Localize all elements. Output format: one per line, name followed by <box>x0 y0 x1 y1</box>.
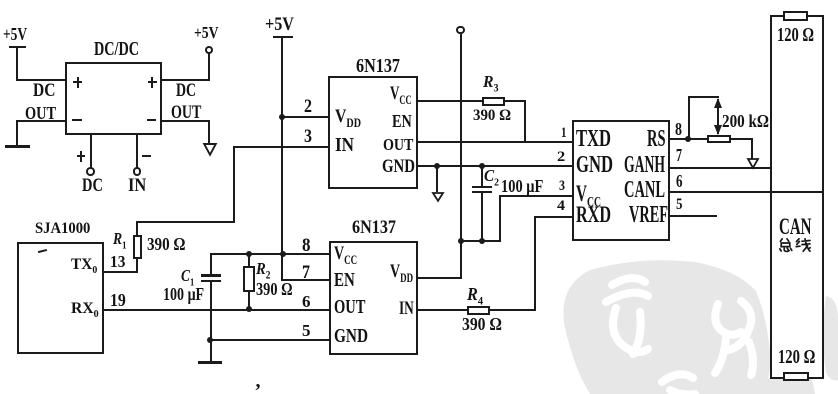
wire: to DC/DC left + pin <box>16 79 65 81</box>
node label DC (left) <box>33 82 60 101</box>
value 100 uF (C2) <box>501 177 554 195</box>
wire: horizontal y=221.5 to R1 <box>136 221 235 223</box>
terminator resistor 120 ohm (top) <box>783 11 809 21</box>
junction dot R2 bottom <box>246 306 252 312</box>
wire: R4 right <box>489 309 536 311</box>
wire: VREF stub <box>669 215 717 217</box>
capacitor C1 plate 1 <box>201 274 222 277</box>
terminal circle +5V (right of DC/DC) <box>205 46 214 55</box>
wire: down to iso-ground arrow <box>208 120 210 144</box>
pin label VDD (top 6N137) <box>335 108 366 127</box>
pin label EN (bottom 6N137) <box>334 271 362 291</box>
wire: top of wiper loop <box>688 96 719 98</box>
pin label RX0 <box>71 301 99 317</box>
junction dot R2 top <box>246 251 252 257</box>
ground bar (below C1) <box>198 361 222 364</box>
pin label TXD (transceiver) <box>576 128 626 152</box>
pin label OUT (top 6N137) <box>383 136 421 153</box>
wire: down to iso-ground arrow (200k) <box>751 138 753 159</box>
label R4 <box>467 285 485 303</box>
pin number 6 (bottom 6N137) <box>302 293 311 310</box>
wire: GANH to CAN bus <box>669 167 772 169</box>
wire: R3 down to TXD line <box>524 100 526 142</box>
wire: R2 top lead <box>248 254 250 267</box>
wire: IN (bottom 6N137) to R4 <box>418 309 468 311</box>
wire: pin 5 GND (bottom 6N137) <box>209 339 330 341</box>
wire: DC/DC right + pin <box>162 79 210 81</box>
pin label GANH (transceiver) <box>624 154 696 178</box>
resistor R4 body <box>467 306 490 316</box>
wire: CANL segment inside bus to right rail <box>770 191 823 193</box>
label SJA1000 <box>35 221 94 237</box>
label 6N137 (bottom) <box>352 219 403 238</box>
small smudge inside SJA1000 <box>38 248 47 252</box>
wire: IN vertical x=233.7 <box>233 146 235 223</box>
wire: +5V vertical rail x=461 <box>460 34 462 278</box>
capacitor C1 plate 2 <box>201 280 222 283</box>
junction dot +5V node <box>458 238 464 244</box>
optocoupler 6N137 (bottom) box <box>329 241 418 355</box>
wire: GND (top 6N137) to GND pin 2 <box>417 165 573 167</box>
label R3 <box>483 73 500 90</box>
value 200 kohm <box>722 112 778 130</box>
pin label RXD (transceiver) <box>576 204 626 227</box>
pin number 3 (transceiver) <box>559 179 566 194</box>
terminal circle DC (bottom) <box>86 167 95 176</box>
pin label GND (transceiver) <box>576 154 629 178</box>
wire: pin 8 / +5V node line <box>210 253 331 255</box>
pin label VDD (bottom 6N137) <box>390 263 421 282</box>
label - (bottom pin, drawn) <box>142 155 150 157</box>
ground bar (left) <box>5 145 30 148</box>
wire: +5V node line <box>461 240 501 242</box>
wire: TX0 pin 13 <box>101 271 138 273</box>
label +5V (right of DC/DC) <box>194 25 224 42</box>
label R1 <box>113 231 129 248</box>
wire: CANL to CAN bus <box>669 191 824 193</box>
optocoupler 6N137 (top) box <box>328 76 418 189</box>
value 120 ohm (bottom) <box>778 348 828 368</box>
pin number 2 (top 6N137) <box>304 97 313 115</box>
terminal circle IN (bottom) <box>133 167 142 176</box>
wire: RS pin 8 <box>669 138 708 140</box>
junction dot C2 bottom <box>479 238 485 244</box>
iso-ground triangle (below 6N137 GND) <box>432 192 444 202</box>
pin label IN (top 6N137) <box>335 136 357 156</box>
pin label EN (top 6N137) <box>392 113 416 131</box>
value 120 ohm (top) <box>777 26 827 46</box>
label CAN <box>779 216 829 239</box>
wire: node up to VCC pin 3 (transceiver) <box>499 196 501 242</box>
pin label TX0 <box>71 257 98 273</box>
wire: R3 right <box>505 100 526 102</box>
pin label GND (top 6N137) <box>382 158 423 177</box>
value 390 ohm (R4) <box>462 315 508 333</box>
wire: DC/DC bottom pin - <box>136 133 138 168</box>
pin label GND (bottom 6N137) <box>334 327 378 347</box>
+5V rail bar (middle) <box>273 36 293 39</box>
capacitor C2 plate 2 <box>472 191 492 193</box>
pin number 4 (transceiver) <box>557 199 564 213</box>
junction dot C2 top <box>479 163 485 169</box>
wire: 200k right <box>730 138 753 140</box>
pin label CANL (transceiver) <box>624 179 692 203</box>
wire: R2 bottom lead <box>248 291 250 310</box>
node label OUT (left) <box>25 105 64 123</box>
iso-ground triangle (below OUT right) <box>203 143 217 156</box>
wire: VCC to R3 <box>417 100 482 102</box>
label 6N137 (top) <box>356 57 409 77</box>
wire: OUT (top 6N137) to TXD pin 1 <box>417 141 573 143</box>
label DC/DC <box>94 40 156 60</box>
potentiometer 200k body <box>707 135 731 144</box>
resistor R2 body <box>243 266 255 292</box>
pin number 6 (transceiver) <box>676 172 685 190</box>
wire: pin 3 IN (top 6N137) <box>233 146 329 148</box>
label +5V (middle rail) <box>265 15 298 33</box>
pin number 19 (SJA1000 RX0) <box>110 292 128 310</box>
pin label VREF (transceiver) <box>629 204 694 228</box>
wire: DC/DC right - pin <box>162 120 210 122</box>
label + (bottom pin, drawn) <box>77 155 86 157</box>
value 100 uF (C1) <box>163 286 214 304</box>
wire: DC/DC bottom pin + <box>90 133 92 168</box>
label 总线 (CAN bus, drawn strokes) <box>778 238 812 253</box>
stray comma mark <box>256 371 261 391</box>
resistor R3 body <box>482 97 506 107</box>
node label DC (right) <box>176 82 203 101</box>
pin number 8 (transceiver) <box>675 120 684 138</box>
wire: pin 2 to VDD (top 6N137) <box>281 116 329 118</box>
terminator resistor 120 ohm (bottom) <box>783 372 809 381</box>
label R2 <box>256 260 273 277</box>
CAN bus body <box>770 15 824 379</box>
label C2 <box>484 168 500 185</box>
label C1 <box>181 268 197 285</box>
pin number 5 (bottom 6N137) <box>302 323 310 340</box>
DC/DC converter box <box>65 62 162 135</box>
wire: down to ground (left) <box>16 120 18 146</box>
pin number 2 (transceiver) <box>557 150 564 165</box>
terminal label DC (bottom) <box>82 177 109 196</box>
pin + (right, drawn) <box>148 81 157 83</box>
pin label RS (transceiver) <box>647 128 678 152</box>
wire: VDD (bottom 6N137) to +5V rail <box>418 277 463 279</box>
wire: RX0 to OUT (bottom 6N137) pin 6 <box>102 309 330 311</box>
terminal label IN (bottom) <box>128 177 149 196</box>
pin label VCC (top 6N137) <box>390 85 421 104</box>
pin number 1 (transceiver) <box>561 126 568 141</box>
capacitor C1 top lead <box>210 254 212 276</box>
wire: RXD pin 4 (transceiver) <box>534 216 573 218</box>
junction dot GND line (C1) <box>207 337 213 343</box>
wire: +5V bar down <box>16 47 18 80</box>
wire: RS up <box>688 96 690 139</box>
wire: up to RXD pin 4 <box>534 216 536 311</box>
pin number 7 (transceiver) <box>676 146 685 164</box>
wire: DC/DC left - pin to ground <box>16 120 66 122</box>
label +5V (top left) <box>3 25 35 43</box>
wire: down to iso-ground arrow (GND line) <box>436 165 438 192</box>
+5V rail bar (top left) <box>9 46 27 49</box>
pin - (right, drawn) <box>147 119 157 121</box>
value 390 ohm (R3) <box>473 108 514 124</box>
wire: R1 bottom to TX0 <box>136 258 138 274</box>
pin number 8 (bottom 6N137) <box>302 236 311 254</box>
pin label VCC (bottom 6N137) <box>334 245 365 264</box>
pin - (left, drawn) <box>72 119 82 121</box>
iso-ground triangle (200k) <box>747 158 759 169</box>
capacitor C1 bottom lead <box>210 282 212 362</box>
junction dot +5V rail / pin8 <box>280 251 286 257</box>
pin label VCC (transceiver) <box>576 183 614 206</box>
value 390 ohm (R2) <box>256 280 302 298</box>
capacitor C2 top lead <box>481 166 483 186</box>
junction dot iso-ground branch <box>434 163 440 169</box>
pin number 7 (bottom 6N137) <box>302 263 311 281</box>
junction dot RS <box>685 136 691 142</box>
capacitor C2 bottom lead <box>481 193 483 241</box>
pin + (left, drawn) <box>73 81 82 83</box>
pin number 3 (top 6N137) <box>304 127 314 146</box>
+5V terminal circle (x=460) <box>456 26 465 35</box>
wire: up to +5V terminal <box>208 53 210 81</box>
pin number 5 (transceiver) <box>676 197 684 213</box>
potentiometer wiper arrow (200k) <box>711 97 725 136</box>
wire: VCC pin 3 (transceiver) <box>499 195 573 197</box>
capacitor C2 plate 1 <box>472 186 492 188</box>
wire: pin 7 EN stub <box>282 279 330 281</box>
junction dot pin2 <box>279 114 285 120</box>
pin label OUT (bottom 6N137) <box>334 298 377 318</box>
value 390 ohm (R1) <box>147 235 193 253</box>
wire: +5V vertical rail x=282 <box>281 37 283 281</box>
node label OUT (right) <box>171 104 212 123</box>
CAN transceiver box <box>572 120 670 241</box>
pin label IN (bottom 6N137) <box>399 299 419 317</box>
SJA1000 box <box>17 242 104 355</box>
pin number 13 (SJA1000 TX0) <box>110 254 127 271</box>
resistor R1 body <box>133 235 142 259</box>
wire: down to R1 top <box>136 221 138 237</box>
